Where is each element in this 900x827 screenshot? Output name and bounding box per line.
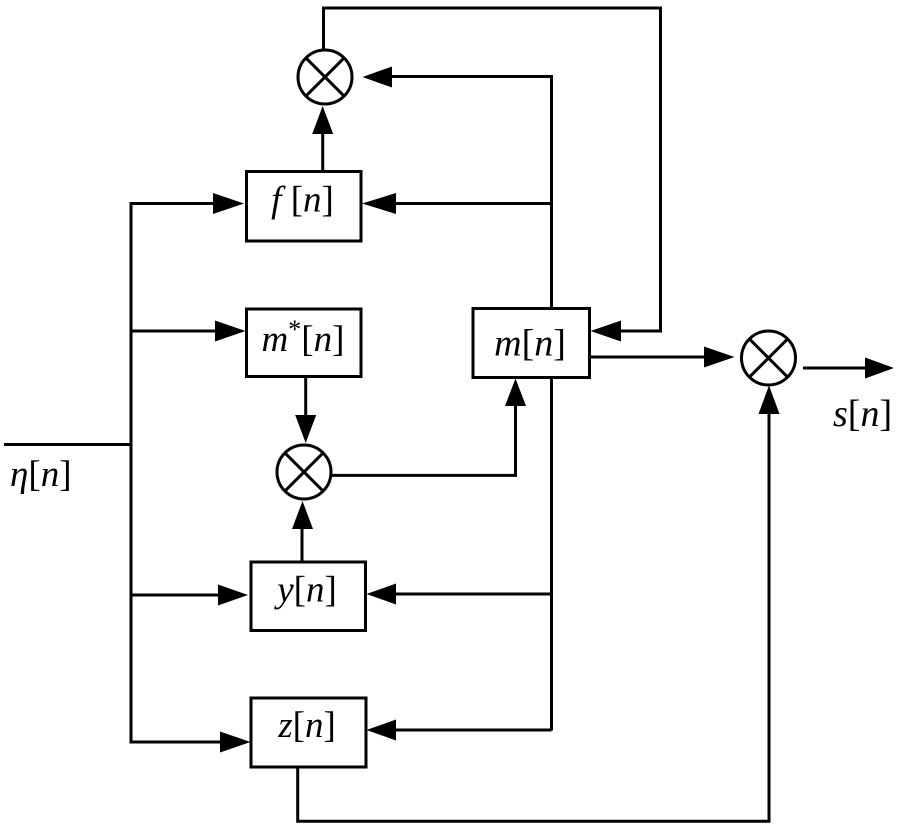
arrowhead into multiplier M1 right side (363, 67, 393, 88)
arrowhead into multiplier M2 top (295, 415, 316, 443)
svg-text:η[n]: η[n] (10, 454, 72, 495)
block m[n] (473, 309, 590, 378)
arrowhead into multiplier M3 left side (704, 347, 735, 368)
svg-text:y[n]: y[n] (273, 570, 337, 611)
wire: branch into y[n] left side (131, 594, 218, 597)
multiplier M3 (right) (742, 331, 796, 385)
svg-text:m*[n]: m*[n] (262, 315, 345, 360)
arrowhead output s[n] (865, 358, 894, 379)
arrowhead into f[n] left side (213, 193, 244, 214)
wire: f[n] output up into multiplier M1 (321, 134, 324, 172)
arrowhead into multiplier M2 bottom (292, 501, 313, 529)
wire: m[n] output to multiplier M3 (590, 356, 705, 359)
arrowhead into multiplier M3 bottom (759, 386, 780, 415)
arrowhead into m[n] right side (591, 321, 622, 342)
arrowhead into m*[n] left side (215, 321, 246, 342)
wire: top feedback from multiplier M1 up and across (324, 8, 661, 331)
wire: branch into f[n] left side (131, 202, 213, 205)
block f[n] (247, 172, 362, 242)
arrowhead into m[n] bottom (505, 379, 526, 407)
wire: left trunk (130, 202, 133, 744)
block m*[n] (247, 309, 362, 377)
block y[n] (251, 562, 366, 631)
arrowhead into y[n] left side (218, 585, 248, 606)
wire: z[n] output down, across the bottom, up into multiplier M3 (298, 414, 769, 821)
multiplier M1 (top) (298, 50, 352, 104)
multiplier M2 (middle) (277, 445, 331, 499)
wire: branch into y[n] right side (396, 593, 552, 596)
wire: branch into m*[n] left side (131, 330, 215, 333)
block z[n] (251, 698, 366, 767)
arrowhead into z[n] right side (367, 720, 397, 741)
wire: y[n] output up into multiplier M2 (301, 529, 304, 562)
arrowhead into y[n] right side (367, 584, 397, 605)
wire: branch into f[n] right side (396, 202, 552, 205)
wire: m*[n] output down into multiplier M2 (304, 377, 307, 416)
svg-text:m[n]: m[n] (494, 323, 566, 365)
wire: multiplier M3 output s[n] (803, 367, 865, 370)
arrowhead into multiplier M1 bottom (312, 106, 333, 134)
svg-text:z[n]: z[n] (277, 705, 336, 746)
wire: trunk from top horizontal to bottom right branch (392, 77, 552, 731)
wire: eta input line (4, 443, 131, 446)
svg-text:f [n]: f [n] (271, 180, 334, 221)
arrowhead into z[n] left side (220, 732, 251, 753)
wire: multiplier M2 output to m[n] bottom (331, 406, 516, 475)
arrowhead into f[n] right side (362, 193, 396, 214)
svg-text:s[n]: s[n] (833, 393, 892, 435)
wire: branch into z[n] right side (396, 729, 552, 732)
wire: branch into z[n] left side (131, 741, 220, 744)
